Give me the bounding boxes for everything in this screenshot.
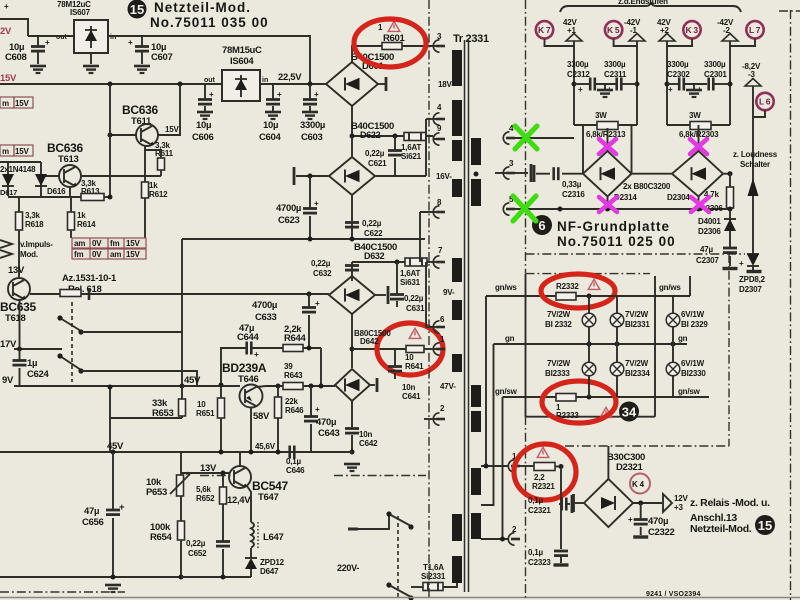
node C633 tap — [307, 292, 312, 297]
wire R644 right — [303, 347, 321, 349]
svg-text:D632: D632 — [364, 251, 385, 261]
label am 15V box1 — [0, 97, 33, 108]
node 45V — [180, 384, 185, 389]
resistor R653 — [179, 386, 186, 418]
svg-text:3300µ: 3300µ — [704, 60, 726, 69]
wire loudness line — [752, 86, 754, 254]
svg-text:3300µ: 3300µ — [667, 60, 689, 69]
node 45v b — [108, 385, 113, 390]
svg-text:3300µ: 3300µ — [604, 60, 626, 69]
svg-text:16V-: 16V- — [436, 172, 452, 181]
svg-text:1µ: 1µ — [27, 358, 37, 369]
wire R2321 row — [518, 465, 534, 467]
capacitor C603 — [302, 84, 319, 119]
svg-text:BI2330: BI2330 — [681, 369, 706, 378]
svg-text:Si631: Si631 — [400, 278, 421, 287]
NF box bottom — [526, 416, 656, 418]
wire K3 stub — [667, 39, 692, 47]
wire left col down — [109, 418, 111, 452]
svg-text:10n: 10n — [359, 430, 372, 439]
capacitor C621 — [388, 136, 402, 176]
svg-text:-3: -3 — [748, 70, 755, 79]
warn triangle R641 — [409, 328, 421, 338]
wire pin6 link — [426, 262, 433, 327]
wire T611 collector — [158, 84, 180, 135]
node rail x251 — [249, 450, 254, 455]
regulator U IS607 — [74, 20, 108, 53]
svg-text:K 3: K 3 — [686, 25, 699, 35]
svg-text:D2304: D2304 — [667, 193, 690, 202]
node C624 tap — [17, 347, 22, 352]
svg-text:No.75011 035 00: No.75011 035 00 — [150, 15, 269, 30]
svg-text:0,22µ: 0,22µ — [362, 219, 382, 228]
node bottom x223 — [221, 575, 226, 580]
wire D2321 top — [607, 446, 609, 479]
wire D2304 right — [723, 173, 730, 175]
pin 2 right — [508, 525, 520, 545]
svg-text:22,5V: 22,5V — [278, 72, 302, 83]
capacitor C2307 — [723, 232, 744, 268]
svg-text:3300µ: 3300µ — [300, 120, 325, 131]
warn triangle R601 — [388, 21, 400, 31]
svg-text:2V: 2V — [0, 26, 12, 37]
wire T647 emitter to L647 — [247, 486, 251, 522]
svg-text:BI 2329: BI 2329 — [681, 320, 708, 329]
svg-text:C2316: C2316 — [562, 190, 585, 199]
transistor T613 — [59, 165, 81, 187]
connector L7 — [746, 21, 763, 38]
wire P653 top — [180, 452, 182, 475]
module boundary dash-dot x429 — [428, 0, 430, 600]
switch blade S1 — [57, 315, 83, 334]
svg-text:6V/1W: 6V/1W — [681, 359, 705, 368]
wire D622 feed — [352, 135, 404, 137]
svg-text:1,6AT: 1,6AT — [401, 143, 422, 152]
node pin4w — [573, 137, 575, 139]
wire in to right — [108, 36, 310, 84]
wire R611 bottom — [160, 170, 162, 176]
wire emitter T613 — [70, 187, 81, 197]
winding bar R5 — [471, 468, 481, 495]
svg-text:15V: 15V — [165, 125, 179, 134]
svg-text:10n: 10n — [402, 383, 415, 392]
node C642 gnd — [350, 450, 355, 455]
wire bottom rail mid — [181, 576, 251, 578]
svg-text:7V/2W: 7V/2W — [625, 359, 649, 368]
signal arrow 1 — [0, 240, 12, 248]
bulb column 1 — [588, 296, 590, 397]
wire bottom rail — [0, 576, 181, 578]
svg-text:12,4V: 12,4V — [227, 495, 251, 506]
svg-text:T646: T646 — [238, 374, 258, 385]
svg-text:22k: 22k — [285, 397, 298, 406]
svg-text:BD239A: BD239A — [222, 361, 267, 375]
regulator U IS604 — [222, 70, 260, 101]
winding bar L2 — [452, 100, 462, 136]
svg-text:K 5: K 5 — [607, 25, 620, 35]
svg-text:T618: T618 — [5, 313, 25, 324]
svg-text:out: out — [204, 77, 216, 84]
svg-text:39: 39 — [284, 362, 293, 371]
svg-text:D617: D617 — [0, 188, 17, 197]
badge 34 — [619, 402, 639, 422]
wire emitter to R611 — [145, 146, 161, 158]
node R2321 out — [559, 464, 564, 469]
svg-text:220V-: 220V- — [337, 563, 359, 573]
wire T647 collector — [239, 452, 241, 466]
svg-text:0V: 0V — [92, 239, 102, 248]
diode D4001 D2306 — [724, 209, 736, 232]
winding bar L5 — [452, 258, 462, 282]
wire D642 bottom — [351, 401, 353, 452]
svg-text:R654: R654 — [150, 532, 173, 543]
pin 3 — [433, 32, 445, 52]
lamp BI2329 — [666, 313, 680, 327]
svg-text:T1,6A: T1,6A — [423, 563, 444, 572]
svg-text:78M15uC: 78M15uC — [222, 45, 262, 56]
lamp BI2333 — [582, 362, 596, 376]
wire out to C608 — [28, 35, 74, 37]
wire x110 vertical — [109, 84, 111, 197]
svg-text:15V: 15V — [126, 239, 140, 248]
capacitor C2322 — [628, 503, 648, 535]
relay actuation dashed link — [71, 302, 73, 382]
pin 8 — [433, 198, 445, 218]
node base — [108, 133, 113, 138]
svg-text:gn/sw: gn/sw — [678, 387, 701, 396]
svg-text:+: + — [45, 38, 50, 47]
svg-text:6V/1W: 6V/1W — [681, 310, 705, 319]
svg-text:+: + — [628, 515, 633, 524]
node col4 — [728, 82, 733, 87]
resistor R614 — [68, 212, 75, 230]
svg-text:2,2: 2,2 — [534, 473, 545, 482]
ground IS607 — [83, 66, 99, 73]
svg-text:34: 34 — [622, 405, 637, 420]
annotation circle R2321 — [514, 444, 576, 500]
wire relay line — [30, 293, 329, 295]
svg-text:C656: C656 — [82, 517, 104, 528]
fuse Si2331 — [423, 583, 443, 591]
wire R614 bottom — [70, 230, 72, 238]
resistor R601 — [382, 43, 402, 50]
potentiometer P653 — [170, 472, 190, 497]
wire D2314 top — [583, 125, 632, 174]
svg-text:C633: C633 — [255, 312, 277, 323]
wire L7 stub — [730, 39, 755, 47]
svg-text:470µ: 470µ — [648, 516, 668, 527]
svg-text:13V: 13V — [8, 265, 25, 276]
module badge 15 — [128, 0, 147, 19]
winding bar R4 — [471, 411, 481, 432]
terminal D642 right — [370, 378, 377, 392]
svg-text:R2321: R2321 — [532, 482, 555, 491]
svg-text:+: + — [739, 259, 744, 268]
svg-text:+: + — [128, 38, 133, 47]
pin 4 right — [503, 124, 574, 144]
wire R613 right — [104, 196, 110, 198]
svg-text:9V-: 9V- — [443, 288, 455, 297]
wire R652 bottom — [222, 504, 224, 577]
svg-text:4700µ: 4700µ — [252, 300, 277, 311]
wire 220V pole — [358, 514, 389, 529]
svg-text:5,6k: 5,6k — [196, 485, 212, 494]
node winding mid — [474, 172, 479, 177]
svg-text:z.d.Endstufen: z.d.Endstufen — [618, 0, 668, 6]
winding bar L4 — [452, 179, 462, 197]
svg-text:7V/2W: 7V/2W — [547, 310, 571, 319]
svg-text:10: 10 — [197, 400, 206, 409]
svg-text:7V/2W: 7V/2W — [625, 310, 649, 319]
svg-text:R652: R652 — [196, 494, 215, 503]
capacitor C646 — [290, 446, 295, 459]
capacitor C652 — [216, 542, 230, 547]
zener ZPD8,2 D2307 — [747, 254, 759, 270]
svg-text:+: + — [314, 199, 319, 208]
svg-text:P653: P653 — [146, 487, 167, 498]
wire main rail y239 — [182, 238, 425, 240]
svg-text:BI2331: BI2331 — [625, 320, 650, 329]
bulb column 3 — [672, 296, 674, 397]
node pin1 row — [350, 347, 355, 352]
node R646 — [276, 384, 281, 389]
svg-text:R653: R653 — [152, 408, 174, 419]
module boundary dash-dot x525 — [525, 0, 527, 273]
capacitor C631 — [390, 262, 404, 307]
wire D2321 out — [633, 502, 662, 504]
capacitor C607 — [128, 36, 150, 73]
wire T613 collector line — [82, 175, 161, 177]
capacitor C606 — [197, 84, 214, 119]
node col3 — [665, 82, 670, 87]
module badge 15 bottom — [755, 515, 775, 535]
svg-text:BI2334: BI2334 — [625, 369, 650, 378]
svg-text:10µ: 10µ — [263, 120, 278, 131]
wire IS607 gnd — [90, 53, 92, 64]
svg-text:15: 15 — [130, 2, 144, 17]
node col1 — [572, 82, 577, 87]
resistor R643 — [283, 383, 303, 390]
magenta X D2314 top — [599, 139, 616, 154]
svg-text:Mod.: Mod. — [20, 250, 38, 259]
bulb column 2 — [616, 296, 618, 397]
capacitor C2316 — [554, 167, 559, 180]
wire 13V row — [181, 472, 229, 474]
svg-text:R641: R641 — [405, 362, 424, 371]
node col2 — [635, 82, 640, 87]
node R644 x309 — [307, 346, 312, 351]
svg-text:BC547: BC547 — [252, 479, 288, 493]
node gn c1 — [587, 342, 592, 347]
svg-text:3W: 3W — [689, 111, 701, 120]
bridge rectifier D2321 — [584, 479, 633, 527]
signal arrow 2 — [0, 250, 12, 258]
transformer core lines — [465, 40, 469, 592]
connector K5 — [605, 21, 622, 38]
svg-text:D642: D642 — [360, 337, 379, 346]
pin 3 right — [495, 159, 531, 182]
wire 45V rail mid — [62, 385, 182, 387]
module boundary dash-dot y475 b — [334, 475, 426, 477]
svg-text:gn/sw: gn/sw — [495, 387, 518, 396]
svg-text:47µ: 47µ — [84, 506, 99, 517]
wire gn entry — [494, 343, 688, 345]
svg-text:7V/2W: 7V/2W — [547, 359, 571, 368]
wire D2314 bottom — [607, 197, 609, 210]
ground ZPD — [747, 271, 762, 273]
svg-text:15V: 15V — [0, 73, 17, 84]
wire R2321 right — [555, 466, 561, 468]
resistor R2333 — [556, 394, 576, 402]
capacitor C2311 — [595, 78, 637, 95]
svg-text:L 7: L 7 — [749, 25, 761, 35]
wire T646 emitter — [250, 407, 252, 452]
wire D2304 bottom — [698, 197, 700, 210]
svg-text:Netzteil-Mod.: Netzteil-Mod. — [690, 523, 752, 535]
wire drop x561 — [560, 467, 562, 550]
wire gn/sw drop — [502, 397, 504, 539]
diode D616 — [35, 162, 47, 196]
node bus mid — [558, 207, 563, 212]
bridge rectifier D2304 — [672, 151, 723, 197]
svg-text:D4001: D4001 — [698, 217, 721, 226]
wire gn/ws drop — [485, 296, 487, 466]
node D601 bottom — [350, 134, 355, 139]
lamp BI2331 — [610, 313, 624, 327]
resistor R2306 — [727, 174, 734, 210]
plug terminal +2 — [659, 34, 675, 42]
svg-text:R643: R643 — [284, 371, 303, 380]
pin 2 — [424, 404, 445, 425]
node rail x278 — [276, 450, 281, 455]
relay coil Rel618 — [60, 288, 89, 300]
inductor L647 — [251, 522, 258, 548]
wire C2316 to bridge — [562, 173, 583, 175]
plug terminal -3 — [745, 79, 761, 87]
svg-text:R614: R614 — [77, 220, 96, 229]
terminal left D622 — [294, 167, 329, 185]
terminal D2321 left — [574, 494, 585, 512]
node gnsw col1 — [587, 395, 592, 400]
capacitor C604 — [265, 84, 282, 119]
NF box left edge — [525, 274, 527, 417]
svg-text:BC636: BC636 — [47, 141, 83, 155]
node pin1 row — [484, 464, 489, 469]
arrow loudness up — [748, 178, 759, 196]
wire 45V down-left — [110, 386, 182, 418]
svg-text:0,33µ: 0,33µ — [562, 180, 582, 189]
svg-text:C2322: C2322 — [648, 527, 675, 538]
connector K7 — [536, 21, 553, 38]
wire pin4 link — [426, 118, 433, 120]
node R2306 top — [728, 171, 733, 176]
svg-text:C621: C621 — [368, 159, 387, 168]
wire D632 feed — [352, 261, 405, 263]
wire x183 riser — [181, 239, 183, 386]
svg-text:Netzteil-Mod.: Netzteil-Mod. — [154, 0, 251, 15]
winding bar L1 — [452, 50, 462, 86]
svg-text:0,1µ: 0,1µ — [286, 457, 302, 466]
wire D622 right — [375, 175, 426, 177]
wire col +1 — [573, 41, 575, 125]
svg-text:Si2331: Si2331 — [421, 572, 446, 581]
lamp BI2330 — [666, 362, 680, 376]
svg-text:ZPD8,2: ZPD8,2 — [739, 275, 766, 284]
resistor R2332 — [556, 293, 576, 301]
ground C2307 — [723, 268, 738, 270]
wire 9V — [14, 385, 62, 387]
boundary dash-dot bottom NF — [565, 445, 729, 447]
winding bar L9 — [452, 556, 462, 583]
annotation circle R2332 — [541, 274, 615, 308]
wire link x321 — [320, 348, 322, 386]
wire R612 bottom — [144, 198, 146, 238]
wire C644 to R644 — [252, 347, 283, 349]
wire D622 bottom — [351, 195, 353, 239]
svg-text:47V-: 47V- — [440, 382, 456, 391]
node 22,5V — [308, 82, 313, 87]
resistor R618 — [16, 212, 23, 230]
switch blade mains1 — [386, 511, 413, 529]
svg-text:C652: C652 — [188, 549, 207, 558]
wire R614 top — [70, 197, 72, 212]
node D2321 out — [638, 501, 643, 506]
boundary right edge — [790, 10, 792, 600]
switch 220V pole bar — [348, 528, 358, 531]
wire 45V rail to C646 — [287, 451, 352, 453]
bridge rectifier D622 — [329, 157, 375, 195]
svg-text:10: 10 — [405, 353, 414, 362]
wire fuse631 right — [427, 261, 433, 263]
svg-text:BI 2332: BI 2332 — [545, 320, 572, 329]
node C623 tap — [308, 174, 313, 179]
winding bar L8 — [452, 514, 462, 541]
svg-text:K 7: K 7 — [538, 25, 551, 35]
warn triangle R2332 — [588, 279, 600, 289]
NF box right edge — [654, 276, 656, 417]
wire 17V — [14, 348, 62, 350]
node rail a — [308, 237, 313, 242]
svg-text:C622: C622 — [364, 229, 383, 238]
capacitor C643 — [304, 386, 320, 452]
terminal D632 right — [375, 286, 388, 304]
svg-text:R644: R644 — [284, 333, 307, 344]
svg-text:m: m — [2, 147, 9, 156]
svg-text:R2332: R2332 — [556, 282, 579, 291]
wire bus y210 — [513, 208, 730, 210]
ground caps left — [597, 84, 613, 97]
annotation circle R601 — [354, 19, 426, 67]
node rail x221 — [219, 450, 224, 455]
svg-text:D2321: D2321 — [616, 462, 644, 473]
svg-text:15V: 15V — [15, 147, 29, 156]
svg-text:C2312: C2312 — [567, 70, 590, 79]
svg-text:am: am — [110, 250, 121, 259]
svg-text:+: + — [4, 2, 9, 11]
svg-text:BI2333: BI2333 — [545, 369, 570, 378]
plug terminal -1 — [629, 34, 645, 42]
svg-text:2x1N4148: 2x1N4148 — [0, 165, 36, 174]
bridge rectifier D601 — [326, 62, 378, 106]
magenta X D2304 bottom — [691, 197, 709, 212]
node 15V a — [108, 82, 113, 87]
svg-text:+: + — [315, 299, 320, 308]
wire col +2 — [666, 41, 668, 125]
winding bar R6 — [471, 513, 481, 539]
svg-text:15V: 15V — [126, 250, 140, 259]
svg-text:58V: 58V — [253, 411, 270, 422]
wire R643 right — [303, 385, 335, 387]
